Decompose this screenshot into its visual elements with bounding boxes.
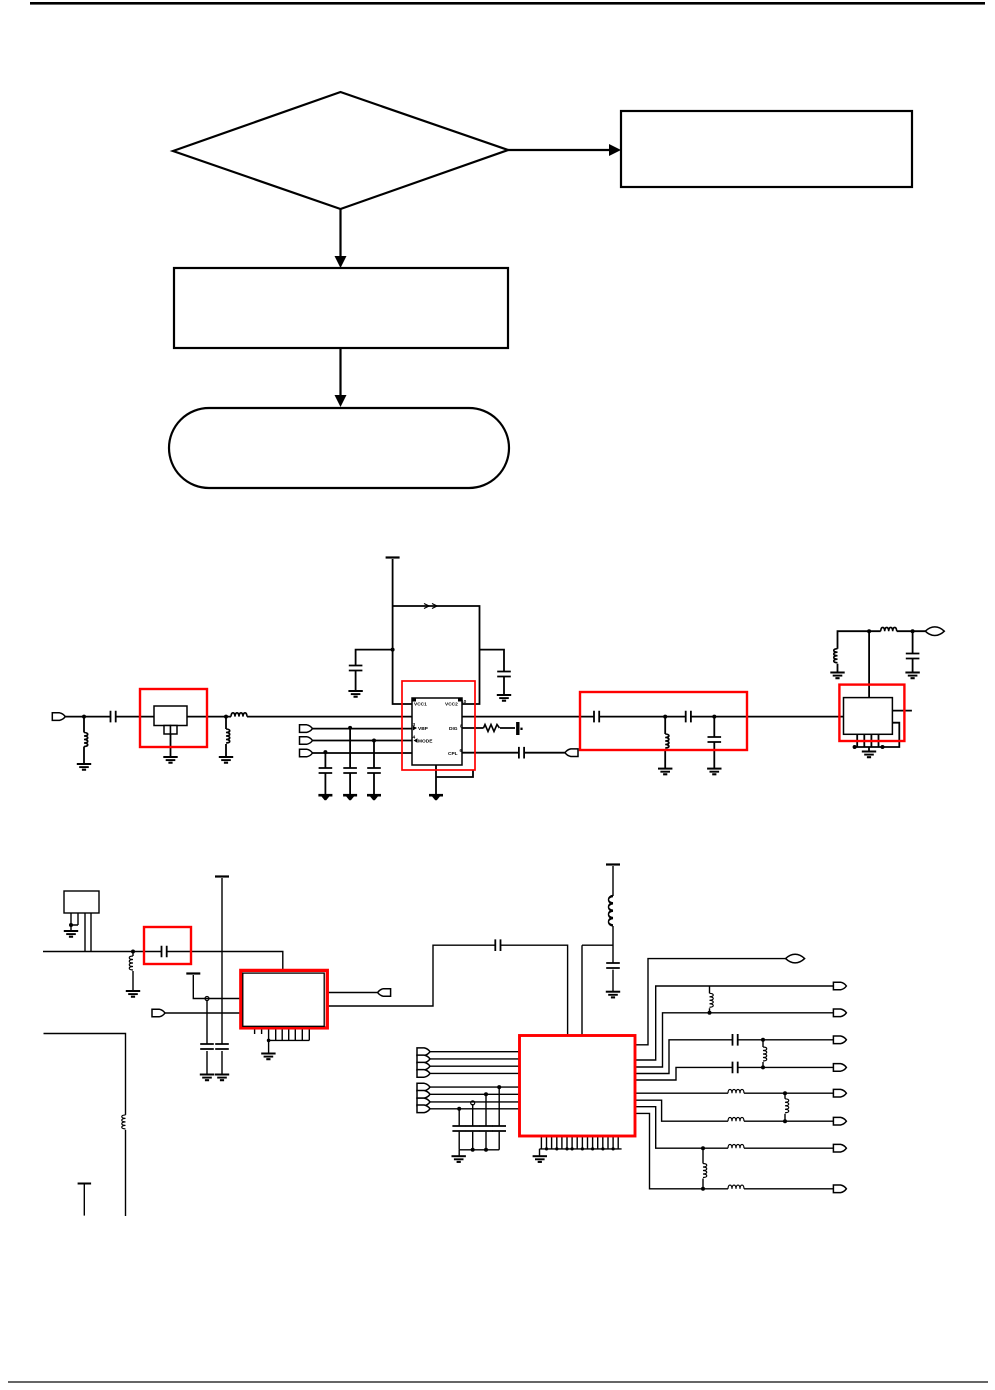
- svg-text:8: 8: [460, 724, 463, 730]
- svg-text:4: 4: [413, 735, 416, 741]
- svg-text:VCC1: VCC1: [414, 702, 427, 708]
- svg-text:6: 6: [460, 748, 463, 754]
- svg-text:VBP: VBP: [418, 726, 429, 732]
- svg-text:VCC2: VCC2: [445, 702, 458, 708]
- svg-text:DIG: DIG: [449, 726, 458, 732]
- svg-text:CPL: CPL: [448, 751, 458, 757]
- svg-text:MODE: MODE: [418, 739, 433, 745]
